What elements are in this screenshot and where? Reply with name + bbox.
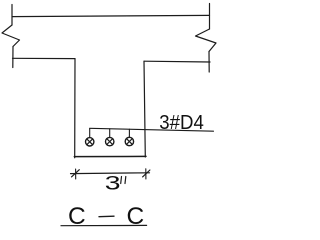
dimension line <box>71 172 150 175</box>
svg-text:3: 3 <box>105 172 121 194</box>
dimension text inch marks <box>121 177 126 184</box>
rebar leader line <box>90 128 214 131</box>
left break line upper <box>11 5 13 26</box>
left break line lower <box>12 47 14 68</box>
dimension slash left <box>72 170 80 177</box>
slab soffit right <box>144 60 210 63</box>
svg-text:C: C <box>68 203 86 230</box>
rebar bar 3 <box>125 137 133 145</box>
stem bottom <box>74 155 146 157</box>
title dash <box>99 215 114 218</box>
dimension extension tick left <box>75 169 77 179</box>
svg-text:C: C <box>127 203 145 230</box>
svg-text:3#D4: 3#D4 <box>159 111 204 134</box>
right break line upper <box>209 4 211 30</box>
stem right wall <box>144 61 145 157</box>
right break zigzag <box>196 29 217 52</box>
slab top edge <box>12 15 210 16</box>
dimension extension tick right <box>145 169 147 179</box>
title underline <box>61 224 147 226</box>
rebar bar 1 <box>86 138 94 146</box>
dimension slash right <box>143 170 150 177</box>
rebar tick 1 <box>89 128 91 137</box>
stem left wall <box>74 59 76 158</box>
rebar bar 2 <box>106 137 114 145</box>
right break line lower <box>208 52 210 73</box>
slab soffit left <box>13 57 76 59</box>
left break zigzag <box>2 25 20 47</box>
rebar tick 3 <box>128 129 130 137</box>
rebar tick 2 <box>109 129 111 137</box>
